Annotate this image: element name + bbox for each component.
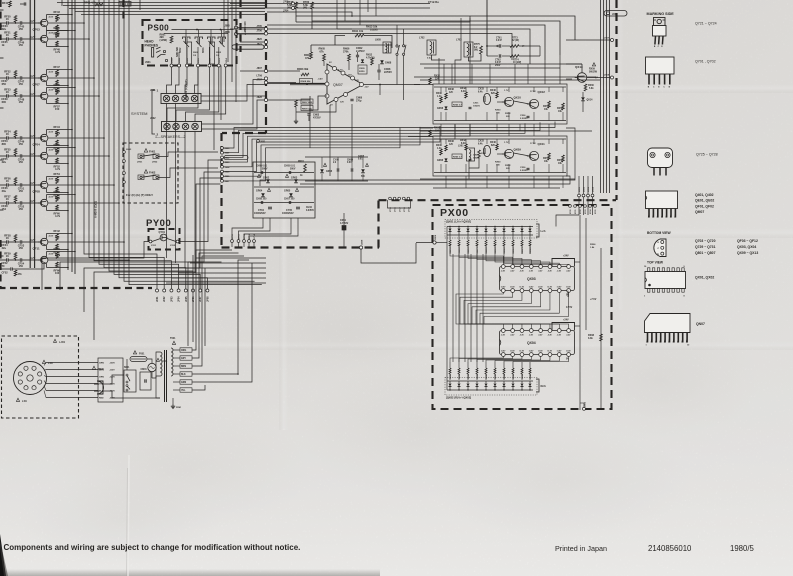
wire top run E: [330, 29, 530, 64]
wire top run A: [296, 16, 575, 40]
svg-text:11.8V: 11.8V: [529, 351, 534, 353]
wire collector of QF04 to bus: [57, 129, 72, 131]
svg-text:J810: J810: [187, 57, 189, 63]
svg-text:RX39 1.8k: RX39 1.8k: [530, 243, 532, 254]
wire ct62 rail: [487, 55, 498, 57]
svg-text:CF31 100: CF31 100: [120, 3, 132, 6]
connector J734: [589, 205, 592, 208]
wire RX col to QX03 pin 7: [504, 254, 559, 265]
wire top interconnect 2: [63, 5, 265, 7]
fuse F001 symbol: [130, 357, 147, 362]
switch S803 lever: [196, 41, 202, 47]
wire base of QF10: [26, 202, 41, 204]
wire QX13 collector up: [581, 64, 583, 73]
wire stage QF05 out to mid bus: [47, 38, 49, 40]
package SIP7 Q401 etc: [646, 191, 678, 209]
connector J832: [221, 156, 224, 159]
input coupling capacitor CF36: [0, 184, 6, 186]
wire right bus 3: [606, 0, 608, 193]
resistor RX38 (bottom): [521, 362, 523, 368]
IC QX03 pin 16 (top): [501, 265, 505, 269]
board main right border (dashed): [615, 0, 617, 200]
resistor RX28 (bottom): [476, 362, 478, 368]
svg-text:11.8V: 11.8V: [529, 287, 534, 289]
connector J806: [235, 33, 238, 36]
wire RX col to QX03 pin 5: [486, 254, 541, 265]
input coupling capacitor CF53: [0, 137, 6, 139]
wire Rch row bottom: [447, 389, 533, 391]
svg-text:TOP VIEW: TOP VIEW: [647, 261, 664, 265]
wire stage QF09 out to mid bus: [47, 95, 49, 97]
svg-text:JH02: JH02: [152, 162, 158, 164]
wire connector feed bus 4: [235, 0, 237, 102]
series capacitor CF48: [14, 95, 20, 97]
wire into J705: [230, 28, 265, 30]
IC QX04 pin 9 (top): [567, 329, 571, 333]
wire speakers routing 3: [202, 80, 265, 125]
wire emitter of QF08 to bus: [57, 192, 68, 194]
IC QX04 pin 4 (bottom): [529, 353, 533, 357]
svg-text:QX14: QX14: [587, 99, 594, 102]
node top join: [351, 15, 353, 17]
svg-text:CX33: CX33: [478, 89, 484, 91]
svg-text:GR05: GR05: [284, 190, 291, 193]
wire mid feed 3: [224, 123, 526, 157]
transistor QF07: [41, 74, 48, 81]
wire input to pin2 (shielded): [290, 83, 325, 85]
svg-text:-12V: -12V: [347, 75, 352, 77]
svg-text:J806: J806: [225, 32, 231, 34]
wire left edge stub: [0, 9, 4, 11]
wire long run 4: [94, 184, 221, 340]
wire PS00 top bus: [172, 29, 234, 31]
svg-text:Q725 ~ Q728: Q725 ~ Q728: [696, 153, 718, 157]
wire RX col to QX03 pin 3: [468, 254, 522, 265]
wire lower exit 1: [196, 257, 266, 259]
wire group bottom rail: [305, 180, 368, 182]
terminal screw strip2-4: [192, 123, 198, 129]
wire RT77 down: [295, 9, 297, 22]
svg-text:JY02: JY02: [170, 245, 176, 247]
svg-text:QX10: QX10: [514, 96, 522, 100]
svg-text:1.7V: 1.7V: [504, 142, 509, 144]
diode DX01 Lch: [449, 227, 451, 229]
svg-text:RF50: RF50: [54, 143, 61, 147]
wire JX06 into block: [436, 242, 447, 244]
svg-text:-0.5V: -0.5V: [48, 179, 54, 181]
transistor QF03: [41, 19, 48, 26]
wire QX04 pin6 down: [495, 357, 550, 363]
svg-text:4.7k: 4.7k: [55, 253, 61, 257]
IC QX04 pin 8 (bottom): [567, 353, 571, 357]
svg-text:J814: J814: [225, 57, 228, 63]
IC QX04 pin 10 (top): [557, 329, 561, 333]
svg-text:RX60: RX60: [588, 85, 594, 87]
coil LN05 with core: [383, 42, 391, 53]
resistor RF41 top: [9, 1, 12, 7]
svg-text:12V: 12V: [355, 80, 359, 82]
op-amp QM07 pin 2: [325, 82, 329, 86]
wire top drop join: [337, 28, 352, 30]
wire speakers routing 2: [201, 85, 266, 102]
IC QX03 pin 7 (bottom): [557, 289, 561, 293]
svg-text:J802: J802: [150, 117, 156, 120]
ground FRM: [172, 404, 174, 406]
wire base of QF05: [26, 38, 41, 40]
op-amp QM07 output pin: [360, 83, 364, 87]
input coupling capacitor CF35: [0, 38, 6, 40]
wire signal bus L10: [129, 0, 262, 285]
svg-text:LT06: LT06: [257, 75, 263, 78]
wire bottom tail: [13, 264, 45, 269]
wire signal bus L3: [94, 0, 171, 289]
svg-text:8.2k: 8.2k: [461, 143, 466, 145]
wire QX03 pin6 to QX04: [476, 293, 550, 323]
wire PX00 top entry 2: [583, 197, 585, 215]
connector JY02: [176, 240, 179, 243]
svg-text:-0.5V: -0.5V: [48, 132, 54, 134]
svg-text:4.7k: 4.7k: [55, 214, 61, 218]
resistor RX37 (top): [521, 235, 523, 240]
transformer tap ORG: [173, 349, 180, 351]
svg-text:JX04: JX04: [592, 186, 595, 192]
svg-text:J811: J811: [198, 57, 200, 63]
diode DX20 Rch: [529, 381, 531, 383]
connector JX03: [587, 194, 590, 197]
switch S001 POWER box: [124, 370, 136, 392]
svg-text:11.8V: 11.8V: [557, 351, 562, 353]
resistor RX22 (bottom): [449, 362, 451, 368]
transformer T001 primary winding: [160, 352, 162, 376]
wire QX03 pin2 to QX04: [460, 293, 513, 323]
connector JF08: [206, 289, 209, 292]
svg-text:CY06: CY06: [333, 160, 339, 162]
wire collector of QF12 to bus: [57, 251, 75, 253]
wire L703 bottom: [469, 54, 482, 61]
svg-text:RF42: RF42: [54, 229, 61, 233]
svg-text:JF03: JF03: [170, 296, 173, 302]
wire PX00 left feeder 3: [458, 254, 460, 362]
node PS00 bus dots: [196, 29, 198, 31]
IC QX04 top-right step: [552, 323, 575, 331]
emitter resistor RF56 4.7k: [46, 188, 48, 192]
svg-text:JY01: JY01: [151, 245, 157, 247]
connector JH03: [123, 151, 126, 154]
connector J705: [264, 27, 267, 30]
IC QX04 pin 16 (top): [501, 329, 505, 333]
wire top drop 4: [367, 0, 369, 12]
svg-text:RX29 1.2k: RX29 1.2k: [486, 243, 488, 254]
svg-text:JA08: JA08: [360, 239, 363, 245]
svg-text:JF04: JF04: [178, 296, 181, 302]
wire breaker down: [151, 372, 153, 378]
svg-text:RX46: RX46: [490, 89, 496, 92]
resistor RX40 (bottom): [529, 362, 531, 368]
wire collector of QF08 to bus: [57, 176, 72, 178]
wire strip2 feed 1: [167, 67, 198, 122]
socket pin 2: [32, 386, 36, 390]
resistor RX23 (top): [458, 235, 460, 240]
svg-text:47k: 47k: [18, 273, 23, 276]
wire QY01 right: [167, 239, 176, 242]
wires socket to box join: [44, 363, 46, 366]
svg-text:JX05: JX05: [584, 401, 586, 407]
wire connector feed bus 2: [227, 0, 229, 62]
svg-text:RX31 1.8k: RX31 1.8k: [495, 243, 497, 254]
warning F001 fuse: [133, 351, 136, 354]
wire collector of QF03 to bus: [57, 14, 72, 16]
wire top run F: [320, 34, 512, 61]
svg-text:CT62: CT62: [495, 60, 501, 62]
svg-text:-12V: -12V: [364, 87, 369, 89]
wire top bus into channels: [544, 60, 546, 84]
svg-text:Q729 ~ Q731: Q729 ~ Q731: [695, 245, 716, 249]
svg-text:RX46: RX46: [490, 141, 496, 144]
connector JT15: [389, 197, 392, 200]
switch S803 contact bracket: [195, 37, 198, 40]
IC QX03 pin 11 (top): [548, 265, 552, 269]
svg-text:RX32: RX32: [434, 76, 440, 78]
connector JX06 left border: [433, 241, 436, 244]
wire signal bus L9: [124, 0, 255, 281]
svg-text:-0.5V: -0.5V: [48, 236, 54, 238]
board main bottom step: [377, 200, 379, 248]
svg-text:JX09: JX09: [604, 75, 610, 77]
svg-text:GR02: GR02: [263, 177, 270, 180]
svg-text:4.7k: 4.7k: [55, 16, 61, 20]
svg-text:JX07: JX07: [604, 38, 610, 40]
svg-text:-110V: -110V: [109, 370, 115, 372]
wire QX13 base left: [566, 78, 572, 80]
wire Lch row top: [447, 226, 533, 228]
connector JF03: [170, 289, 173, 292]
wire emitter of QF06 to bus: [57, 163, 68, 165]
thermal breaker L001 circle: [148, 363, 156, 371]
svg-text:J809: J809: [179, 57, 181, 63]
collector load resistor RF43 4.7k: [46, 15, 48, 20]
connector lozenge JX08 top: [604, 11, 627, 17]
connector J811: [197, 64, 200, 67]
svg-text:BLK: BLK: [181, 374, 186, 376]
wire PX00 top entry 3: [587, 197, 589, 215]
diode DX19 Rch: [521, 381, 523, 383]
wire channel top rail: [434, 138, 566, 140]
IC QX04 pin 3 (bottom): [520, 353, 524, 357]
connector JT17: [398, 197, 401, 200]
wire strips down 1: [166, 104, 168, 259]
connector J812: [208, 64, 211, 67]
svg-text:RX06: RX06: [590, 244, 596, 246]
svg-text:RN03 39k: RN03 39k: [297, 68, 309, 71]
svg-text:67k: 67k: [320, 50, 325, 53]
wire switch feeds: [396, 25, 398, 45]
IC QX03 pin 4 (bottom): [529, 289, 533, 293]
svg-text:270k: 270k: [343, 50, 349, 53]
svg-text:LX01: LX01: [458, 146, 464, 148]
svg-text:J707: J707: [257, 79, 263, 82]
svg-text:CN05: CN05: [359, 68, 365, 70]
svg-text:RF43: RF43: [54, 10, 61, 14]
svg-text:PY00: PY00: [146, 218, 171, 229]
speaker terminal strip 1 (J801): [161, 94, 201, 104]
emitter resistor RF62 4.7k: [46, 245, 48, 249]
board main bottom border left part: [222, 246, 380, 248]
svg-text:RF44: RF44: [54, 125, 61, 129]
wire mid feed 5: [224, 125, 456, 167]
series capacitor CF54: [14, 259, 20, 261]
svg-text:[QX02 (R)½+⅓QX02]: [QX02 (R)½+⅓QX02]: [446, 396, 471, 400]
wire PX00 left feeder 6: [476, 254, 478, 362]
svg-text:RF45: RF45: [54, 26, 61, 30]
collector load resistor RF44 4.7k: [46, 130, 48, 135]
op-amp QM07 pin 5: [341, 71, 345, 75]
svg-text:[QX01 (L)½+⅓QX02]: [QX01 (L)½+⅓QX02]: [446, 220, 471, 224]
option box For (C)(b)(T) ONLY (dashed): [123, 143, 178, 203]
IC QX04 pin 7 (bottom): [557, 353, 561, 357]
svg-text:22u: 22u: [2, 27, 7, 31]
IC QX03 pin 5 (bottom): [539, 289, 543, 293]
connector J733: [584, 205, 587, 208]
svg-text:RX38: RX38: [448, 89, 454, 91]
wire into J826: [240, 41, 265, 43]
connector JX01: [578, 194, 581, 197]
wire RX col to QX03 pin 6: [495, 254, 550, 265]
svg-text:QM07: QM07: [695, 210, 704, 214]
svg-text:RX37 1.2k: RX37 1.2k: [522, 243, 524, 254]
connector J835: [221, 170, 224, 173]
wire QX04 pin5 down: [486, 357, 541, 363]
svg-text:JH01: JH01: [137, 162, 143, 164]
connector J704 top: [292, 7, 295, 10]
svg-text:FH01: FH01: [149, 150, 156, 154]
IC QX04 pin 2 (bottom): [511, 353, 515, 357]
resistor RT73 symbol: [510, 45, 519, 48]
wire J706 right: [268, 33, 321, 35]
label socket warn 2: [16, 398, 19, 401]
IC QX03 pin 9 (top): [567, 265, 571, 269]
wire under channels 3: [433, 187, 560, 189]
wire base of QF06: [26, 155, 41, 157]
wire channel1 to channel2 gap: [420, 127, 433, 129]
svg-text:CT-B Re: CT-B Re: [428, 0, 439, 4]
wire ct group vertical right: [539, 46, 541, 56]
svg-text:CX33: CX33: [478, 141, 484, 143]
wire rectifier h1: [254, 172, 314, 174]
transistor QF09: [41, 92, 48, 99]
wire JX05 h: [580, 402, 584, 404]
wire QX04 pin7 down: [504, 357, 559, 363]
wire emitter of QF09 to bus: [57, 103, 68, 105]
wire into J706: [236, 33, 265, 35]
svg-text:RX27 1.8k: RX27 1.8k: [477, 243, 479, 254]
wire rail y64: [420, 63, 582, 65]
svg-text:10/25V: 10/25V: [473, 157, 480, 159]
svg-text:BOTTOM VIEW: BOTTOM VIEW: [647, 231, 671, 235]
wire top interconnect 4: [75, 11, 265, 13]
op-amp QM07 pin 4: [333, 67, 337, 71]
svg-text:CX31: CX31: [473, 155, 479, 157]
wire QX03 pin1 to QX04: [456, 293, 503, 323]
diode GN09: [361, 169, 365, 173]
connector J834: [221, 165, 224, 168]
input coupling capacitor CF38: [0, 202, 6, 204]
wire RX col to QX03 pin 2: [459, 254, 513, 265]
svg-text:RX40 2.7: RX40 2.7: [453, 156, 463, 159]
wire feed from switch: [438, 58, 440, 84]
warning RX59 560/2W: [592, 63, 595, 66]
svg-text:RX59: RX59: [589, 69, 595, 71]
wire opamp output right: [364, 84, 421, 86]
wire drops ch1 gap: [454, 124, 456, 131]
wire PX00 left feeder 7: [482, 254, 484, 362]
connector group bracket: [388, 200, 411, 208]
svg-text:QM07: QM07: [333, 83, 343, 87]
switch S805 lever: [219, 41, 225, 47]
terminal screw strip1-1: [163, 95, 169, 101]
wire RX col to QX03 pin 8: [513, 254, 569, 265]
wire JX05 stub: [583, 403, 585, 408]
socket pin 6: [24, 366, 28, 370]
svg-text:RF41: RF41: [2, 2, 9, 5]
svg-text:SYSTEM: SYSTEM: [131, 111, 147, 116]
resistor RX25 (top): [467, 235, 469, 240]
wire QX03 pin8 to QX04: [484, 293, 569, 323]
svg-text:FRM: FRM: [176, 407, 181, 409]
connector J833: [221, 161, 224, 164]
resistor RX27 (top): [476, 235, 478, 240]
svg-text:J808: J808: [172, 57, 174, 63]
collector load resistor RF45 100: [46, 31, 48, 36]
wire QX04 pin2 down: [459, 357, 513, 363]
svg-text:4.7k: 4.7k: [55, 167, 61, 171]
transistor QF10: [41, 199, 48, 206]
svg-text:0.01: 0.01: [358, 159, 363, 161]
svg-text:150: 150: [55, 107, 60, 111]
transistor QX10: [504, 97, 513, 106]
diode DX15 Rch: [485, 381, 487, 383]
collector load resistor RF50 100: [46, 148, 48, 153]
wire top interconnect 3: [69, 8, 265, 10]
svg-text:CX31: CX31: [473, 103, 479, 105]
connector JF02: [163, 289, 166, 292]
svg-text:CN09: CN09: [347, 160, 354, 162]
IC QX03 top-right step: [552, 259, 575, 267]
wire strip1 feeds: [167, 67, 172, 94]
wire PS00 top bus 2: [164, 33, 228, 35]
connector JY01: [149, 240, 152, 243]
svg-text:11.8V: 11.8V: [566, 351, 571, 353]
node input junction: [306, 83, 308, 85]
svg-text:QF07: QF07: [33, 83, 41, 87]
IC QX03 pin 3 (bottom): [520, 289, 524, 293]
capacitor CF52 70p: [0, 268, 10, 270]
wire L702 link: [432, 55, 446, 60]
bracket Rch: [536, 379, 539, 392]
wire plug to switch: [103, 375, 124, 384]
wire primary top: [152, 352, 160, 378]
svg-text:500V: 500V: [262, 168, 268, 170]
svg-text:11.8V: 11.8V: [538, 351, 543, 353]
op-amp QM07 pin 7: [334, 98, 338, 102]
svg-text:11.8V: 11.8V: [501, 287, 506, 289]
svg-text:150: 150: [19, 160, 24, 164]
wire mid feed 7: [224, 127, 421, 176]
diode DX13 Rch: [467, 381, 469, 383]
svg-text:CH08 100: CH08 100: [256, 199, 267, 201]
wire emitter of QF03 to bus: [57, 30, 68, 32]
wire RT80 down: [311, 9, 313, 29]
svg-text:QX12: QX12: [538, 90, 546, 94]
